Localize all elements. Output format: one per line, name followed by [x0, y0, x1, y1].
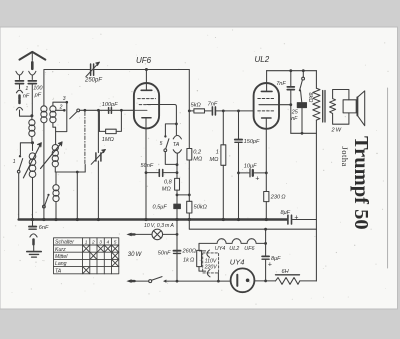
svg-text:30 W: 30 W	[128, 252, 143, 258]
svg-text:230 Ω: 230 Ω	[270, 194, 286, 200]
resistor 1M UL2 grid	[221, 111, 226, 220]
capacitor 50nF cathode	[146, 170, 177, 177]
switch 5 arm	[166, 139, 169, 149]
node tone bottom	[301, 132, 304, 135]
antenna	[20, 52, 46, 60]
tube UL2	[254, 83, 279, 129]
node anode branch	[175, 123, 178, 126]
ground plug hook	[30, 234, 37, 237]
switch 1 arm	[19, 159, 23, 171]
capacitor 50nF heater	[174, 251, 181, 254]
resistor 1M grid leak	[106, 129, 117, 133]
capacitor 0.5uF block	[174, 204, 181, 208]
arrow through L3	[41, 142, 63, 169]
svg-text:0,8: 0,8	[164, 180, 173, 186]
UF6 grid 1 dashed	[138, 98, 156, 100]
svg-text:UL2: UL2	[229, 246, 239, 252]
plug hook upper	[16, 90, 22, 93]
svg-text:1: 1	[25, 86, 28, 92]
wire tap 3 down to coil L3	[56, 102, 67, 131]
resistor 0.8M	[175, 178, 180, 190]
plug contact upper	[207, 250, 210, 257]
switch 1 pivot	[17, 170, 20, 173]
wire anode column	[176, 165, 178, 179]
output transformer primary	[313, 71, 320, 281]
switch 5 contact	[164, 135, 166, 137]
node 150pF top	[237, 110, 240, 113]
paper speckle	[3, 30, 389, 305]
UL2 grid 3 dashed	[258, 110, 275, 112]
plug dashed bar	[18, 96, 21, 104]
node grid loop left	[99, 110, 105, 131]
svg-text:UY4: UY4	[215, 246, 226, 252]
node mech link	[84, 109, 87, 112]
node antenna junction	[30, 114, 33, 117]
svg-text:MΩ: MΩ	[162, 187, 172, 193]
switch 1 contact	[19, 155, 21, 157]
coil L4	[53, 172, 59, 220]
svg-text:7nF: 7nF	[208, 101, 218, 107]
wire to switch 5	[165, 124, 176, 135]
antenna lead wire	[31, 53, 33, 61]
table X marks	[83, 245, 118, 273]
UL2 cathode stem	[265, 118, 267, 192]
voltage selector dashed box	[203, 253, 219, 273]
svg-text:UY4: UY4	[230, 258, 245, 267]
antenna lead thick plug bar	[31, 62, 34, 69]
svg-text:0,2: 0,2	[193, 150, 202, 156]
node grid loop right	[120, 109, 123, 112]
wire plug to mains	[217, 273, 219, 281]
svg-text:Mittel: Mittel	[55, 254, 68, 260]
capacitor 100pF grid	[109, 108, 112, 114]
resistor 8k block	[297, 103, 306, 108]
grid wire UF6	[80, 109, 134, 111]
screen supply drop wire	[188, 70, 190, 111]
antenna socket left	[16, 71, 23, 79]
UL2 top rail	[267, 70, 317, 72]
svg-text:TA: TA	[173, 142, 180, 148]
wire tap 2	[56, 109, 64, 111]
wire 1M to grid wire	[116, 110, 121, 131]
svg-text:100: 100	[33, 86, 43, 92]
arrow through L2	[23, 143, 41, 178]
svg-text:0,5μF: 0,5μF	[153, 205, 168, 211]
svg-text:1: 1	[13, 159, 16, 165]
svg-text:2: 2	[91, 240, 95, 246]
node 1M top	[222, 110, 225, 113]
wire 0.8M to node	[176, 190, 178, 204]
UL2 screen lead	[259, 104, 291, 106]
UL2 cathode bar	[262, 117, 271, 119]
wire T1 secondary bottom jog	[53, 123, 56, 145]
svg-text:6nF: 6nF	[39, 225, 49, 231]
lamp wire left with arrow	[126, 233, 152, 237]
svg-text:TA: TA	[55, 268, 62, 274]
UF6 cathode stem to bus	[145, 118, 147, 220]
dial lamp	[152, 229, 163, 240]
capacitor 6nF ground	[29, 221, 36, 230]
switch table frame	[54, 238, 119, 274]
node tone top	[302, 69, 305, 72]
wire tone switch to 8k	[301, 90, 302, 102]
node 7nF top	[289, 69, 292, 72]
svg-text:nF: nF	[291, 116, 298, 122]
output transformer core	[323, 91, 325, 123]
svg-text:2: 2	[59, 105, 63, 111]
svg-text:1: 1	[85, 240, 88, 246]
svg-text:110V: 110V	[205, 258, 217, 264]
ground plug bar	[32, 240, 35, 245]
wire below 1nF	[19, 84, 21, 89]
svg-text:1: 1	[216, 150, 219, 156]
capacitor 250pF trimmer	[86, 62, 99, 76]
switch 5 pivot	[164, 149, 167, 152]
wire top rail to UF6	[94, 69, 189, 71]
coil L3 variable	[52, 145, 58, 173]
heater return wire	[189, 220, 316, 230]
capacitor 8uF rectifier	[262, 229, 269, 281]
plug hook lower	[16, 107, 22, 110]
chassis bus	[19, 218, 287, 221]
svg-text:4: 4	[107, 240, 110, 246]
svg-text:25: 25	[291, 110, 299, 116]
coil L1 antenna	[29, 116, 35, 143]
node mains heater column	[176, 280, 179, 283]
node screen top	[188, 110, 191, 113]
table digits	[85, 240, 117, 246]
svg-text:Schalter: Schalter	[55, 240, 74, 246]
UF6 grid 3 entry	[134, 109, 147, 111]
wire 100pF to node	[31, 84, 33, 116]
svg-text:250pF: 250pF	[84, 78, 102, 84]
tube UY4	[231, 268, 255, 292]
node 10uF right	[265, 172, 268, 175]
svg-text:260Ω: 260Ω	[182, 248, 197, 254]
wire to switch 1	[20, 143, 32, 155]
svg-text:+: +	[255, 176, 259, 183]
capacitor 7nF coupling	[212, 107, 253, 115]
wire 50k to bus	[188, 213, 190, 220]
svg-text:Jotha: Jotha	[340, 147, 350, 167]
node 50k top	[188, 194, 191, 197]
UF6 anode bar	[141, 89, 152, 91]
UF6 cathode bar	[142, 117, 151, 119]
svg-text:+: +	[294, 214, 298, 221]
svg-text:50kΩ: 50kΩ	[194, 205, 208, 211]
wire 0.5uF to bus	[176, 209, 178, 220]
mains wire left with arrow	[126, 279, 148, 283]
wire dropper to plug lower	[199, 267, 206, 272]
svg-text:10μF: 10μF	[244, 163, 257, 169]
capacitor 1nF	[16, 81, 24, 84]
capacitor 150pF	[235, 111, 242, 220]
transformer T1 secondary	[50, 106, 56, 123]
wire stub mech	[84, 165, 86, 173]
wire from plug to antenna node	[20, 110, 32, 116]
svg-text:150pF: 150pF	[244, 139, 260, 145]
node 10uF left	[237, 172, 240, 175]
mechanical link dashed	[84, 112, 86, 164]
resistor 230 Ohm	[264, 192, 269, 202]
resistor 260 Ohm dropper	[197, 250, 202, 266]
svg-text:UL2: UL2	[255, 55, 270, 64]
node UF6 anode top	[145, 68, 148, 71]
UF6 anode stem	[145, 70, 147, 91]
svg-text:3: 3	[99, 240, 102, 246]
svg-text:7nF: 7nF	[276, 81, 286, 87]
svg-text:1MΩ: 1MΩ	[102, 137, 115, 143]
svg-text:MΩ: MΩ	[210, 157, 220, 163]
speaker cone	[357, 91, 364, 126]
resistor 50k	[187, 201, 192, 213]
UF6 screen lead out	[147, 105, 176, 135]
wire T1 primary to bus	[43, 123, 45, 220]
wire L3 bottom row	[55, 171, 85, 173]
bus junction nodes	[31, 218, 268, 221]
switch 4	[43, 194, 50, 208]
UY4 anode bar	[236, 275, 238, 286]
wire node to 50k	[177, 194, 189, 196]
transformer T1 primary	[41, 106, 47, 123]
capacitor 7nF screen	[287, 71, 294, 134]
node tuning cap top	[97, 109, 100, 112]
node tap 2	[63, 109, 66, 112]
svg-text:5: 5	[114, 240, 117, 246]
wire 230 to bus	[265, 202, 267, 220]
band switch arm	[70, 109, 80, 119]
node 8uF rectifier	[264, 280, 267, 283]
speaker magnet	[343, 100, 356, 113]
node divider	[176, 194, 179, 197]
svg-text:nF: nF	[23, 94, 30, 100]
svg-text:50nF: 50nF	[158, 251, 171, 257]
wire node to bus	[76, 172, 78, 220]
output transformer secondary and speaker frame	[330, 90, 349, 125]
UY4 output wire	[254, 280, 275, 282]
svg-text:10 V, 0,3 m A: 10 V, 0,3 m A	[144, 223, 174, 229]
TA stem	[176, 154, 178, 165]
plug contact lower	[207, 270, 210, 277]
resistor 5k	[189, 109, 211, 113]
heater column wire	[176, 220, 178, 282]
lamp wire right	[163, 233, 177, 235]
svg-text:8kΩ: 8kΩ	[307, 93, 313, 103]
svg-text:5kΩ: 5kΩ	[191, 103, 202, 109]
TA jack upper arc	[173, 135, 181, 139]
node cathode 50nF	[145, 171, 148, 174]
ground symbol	[27, 252, 41, 258]
wire 8k to anode return	[301, 108, 303, 134]
UL2 grid 1 dashed	[258, 98, 275, 100]
resistor 0.2M	[187, 111, 192, 201]
node heater return	[264, 228, 267, 231]
svg-text:pF: pF	[34, 93, 42, 99]
svg-text:3: 3	[63, 96, 66, 102]
coil L2 variable	[29, 143, 36, 220]
variable tuning capacitor	[91, 110, 105, 219]
node TA junction	[176, 163, 179, 166]
tube UF6	[134, 83, 159, 128]
node L3 row	[76, 171, 79, 174]
svg-text:Lang: Lang	[55, 261, 67, 267]
node heater end	[264, 242, 267, 245]
node tap 3	[66, 101, 69, 104]
wire tap 3	[53, 102, 67, 106]
TA jack lower arc	[173, 150, 181, 154]
node coil junction	[31, 141, 34, 144]
svg-text:8μF: 8μF	[281, 210, 291, 216]
svg-text:Trumpf 50: Trumpf 50	[350, 136, 372, 230]
node 50nF junction	[176, 171, 179, 174]
svg-text:220V: 220V	[204, 265, 218, 271]
antenna socket middle	[29, 71, 36, 79]
wire switch 5 down	[165, 152, 177, 165]
UL2 anode stem	[266, 71, 268, 92]
right page fold line	[387, 88, 389, 268]
svg-text:+: +	[268, 262, 272, 269]
svg-text:8μF: 8μF	[271, 256, 281, 262]
node lamp heater	[176, 233, 179, 236]
mains wire to UY4	[165, 280, 230, 282]
svg-text:Kurz: Kurz	[55, 247, 66, 253]
svg-text:1k Ω: 1k Ω	[183, 257, 195, 263]
svg-text:6H: 6H	[282, 269, 290, 275]
svg-text:5: 5	[160, 141, 163, 147]
mains switch	[149, 277, 167, 283]
node screen junction	[289, 103, 292, 106]
svg-text:50nF: 50nF	[141, 163, 154, 169]
tone switch	[299, 71, 305, 92]
wire switch1 to bus	[18, 173, 20, 220]
UY4 cathode dot	[246, 279, 250, 283]
node mains plug	[217, 280, 220, 283]
heater chain wire	[199, 239, 266, 251]
capacitor 100pF	[28, 81, 36, 84]
svg-text:100pF: 100pF	[102, 102, 118, 108]
choke 6H	[276, 275, 317, 285]
capacitor 8uF smoothing	[288, 215, 317, 224]
wire dropper to plug upper	[199, 250, 205, 252]
ground stem	[33, 244, 35, 251]
svg-text:UF6: UF6	[136, 56, 152, 65]
UF6 grid 2 dashed	[139, 104, 152, 106]
UL2 anode bar	[261, 90, 272, 92]
capacitor 10uF electrolytic	[239, 169, 267, 177]
wire top rail left corner	[44, 70, 90, 106]
svg-text:MΩ: MΩ	[193, 157, 203, 163]
svg-text:UF6: UF6	[244, 246, 254, 252]
wire anode return	[291, 132, 317, 134]
svg-text:2 W: 2 W	[331, 128, 342, 134]
